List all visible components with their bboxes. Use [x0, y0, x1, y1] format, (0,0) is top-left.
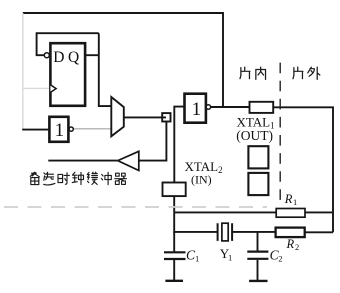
pin XTAL2 (IN) — [163, 183, 186, 197]
wire left vertical clock drop — [22, 13, 24, 130]
crystal Y1 — [218, 223, 233, 241]
node tap square — [162, 113, 170, 121]
wire alternate buffer output stub — [48, 160, 118, 162]
wire down to C1 — [173, 232, 175, 252]
wire XTAL1 pin to external net — [273, 107, 333, 232]
wire XTAL2 pin down to IN net — [173, 196, 175, 212]
label alternate clock buffer (chinese) — [30, 172, 126, 185]
svg-text:1: 1 — [192, 99, 202, 120]
wire mux output to tap node — [124, 116, 166, 118]
svg-text:R: R — [284, 192, 293, 206]
wire R1 to right vertical — [305, 211, 333, 213]
wire tap node down to alternate buffer — [139, 122, 167, 161]
svg-text:(OUT): (OUT) — [236, 128, 273, 143]
svg-text:1: 1 — [293, 197, 297, 207]
svg-text:Q: Q — [68, 49, 79, 66]
wire XTAL2 pin to oscillator inverter input — [174, 107, 184, 183]
resistor R2 — [276, 228, 305, 238]
svg-text:(IN): (IN) — [191, 172, 212, 186]
wire crystal node down to C2 — [257, 232, 259, 251]
oscillator inverter U3 — [185, 94, 206, 123]
wire IN net horizontal to R1 — [174, 211, 276, 213]
ground under C2 — [249, 280, 267, 282]
wire clock to inverter input — [22, 129, 49, 131]
pad square lower — [248, 173, 268, 195]
wire oscillator output to XTAL1 pin — [211, 106, 250, 108]
svg-text:2: 2 — [278, 254, 282, 264]
wire flip-flop feedback Q to D — [37, 33, 99, 55]
wire clock to flip-flop CK — [23, 87, 51, 89]
clock triangle on flip-flop — [50, 85, 56, 93]
capacitor C1 — [164, 252, 186, 259]
svg-text:1: 1 — [228, 253, 232, 263]
alternate clock buffer triangle — [118, 151, 139, 170]
mux selector — [111, 97, 124, 136]
pin XTAL1 (OUT) — [250, 102, 274, 113]
wire R2 to right vertical — [305, 231, 333, 233]
wire IN net down to crystal line — [174, 212, 217, 232]
wire top clock distribution from oscillator output — [23, 13, 223, 107]
svg-text:1: 1 — [55, 120, 65, 141]
D flip-flop U1 — [50, 43, 85, 106]
capacitor C2 — [247, 252, 268, 259]
ground under C1 — [165, 280, 183, 282]
bubble inverted D input — [44, 53, 49, 58]
dashed chip boundary vertical — [279, 63, 281, 206]
wire Q output down to mux input — [99, 33, 112, 106]
wire C1 to ground — [173, 260, 175, 280]
bubble inverter U2 output — [69, 127, 73, 131]
wire crystal to C2/R2 — [232, 231, 276, 233]
resistor R1 — [276, 209, 305, 218]
inverter U2 (divider buffer) — [49, 117, 68, 142]
pad square upper — [248, 146, 268, 168]
svg-text:R: R — [286, 237, 295, 251]
dashed chip boundary horizontal — [4, 206, 267, 208]
wire inverter output to mux lower input — [73, 128, 111, 130]
label pian-nei (on-chip) — [240, 67, 266, 79]
label pian-wai (off-chip) — [293, 67, 320, 79]
svg-text:1: 1 — [195, 254, 199, 264]
svg-text:2: 2 — [295, 242, 299, 252]
bubble oscillator inverter output — [206, 105, 210, 109]
svg-text:D: D — [53, 49, 64, 66]
wire C2 to ground — [257, 260, 259, 280]
